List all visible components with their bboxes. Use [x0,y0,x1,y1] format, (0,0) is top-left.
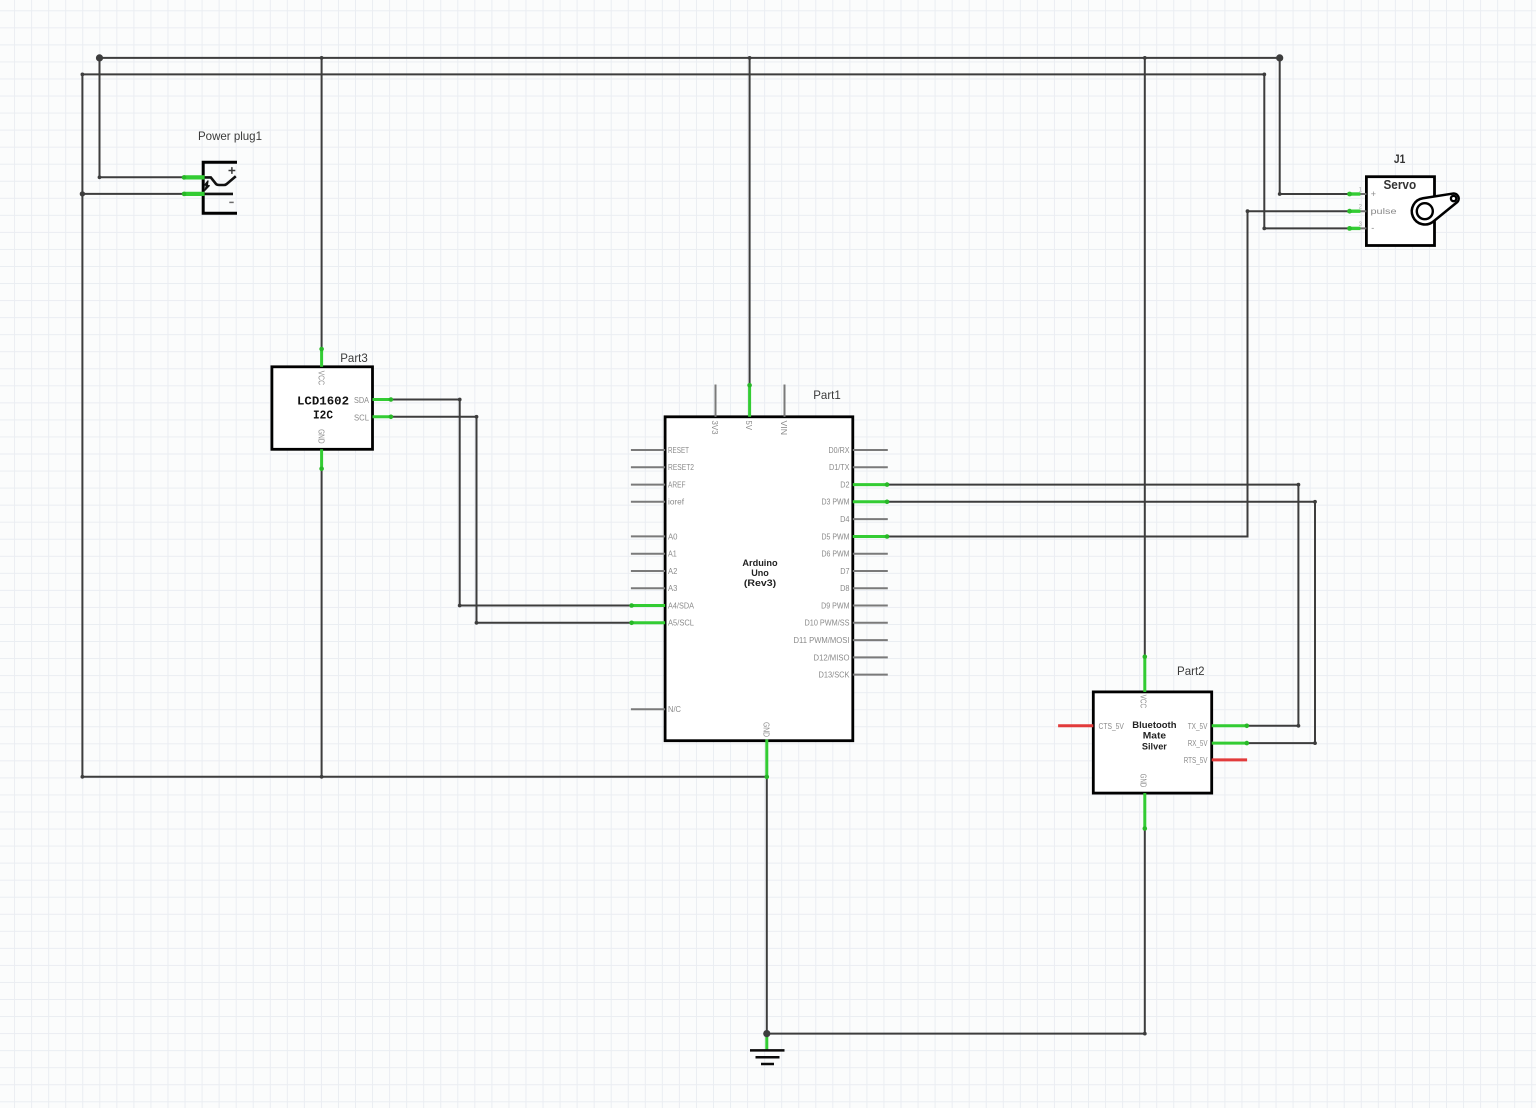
node servo + corner [1278,192,1282,196]
pin LCD GND (green) [320,449,323,469]
servo J1 [1359,152,1459,245]
node pin terminal [1245,724,1250,729]
node pin terminal [1245,741,1250,746]
pin Arduino D6 PWM stub [853,553,888,555]
node power plug - junction [80,191,85,196]
pin Bluetooth VCC (green) [1143,656,1146,692]
pin label GND (rotated) [1138,774,1147,788]
node pin terminal [629,621,634,626]
wire 5V to servo + [1280,58,1349,194]
pin Bluetooth RTS_5V (red, unconnected) [1212,758,1247,761]
Arduino Part1 [665,388,853,741]
node pin terminal [629,603,634,608]
node D2 wire start [886,483,889,486]
node ground junction (top dot) [763,1030,770,1037]
pin Arduino VIN stub [784,385,786,417]
svg-text:D5 PWM: D5 PWM [822,532,850,541]
node SDA corner bottom [458,604,462,608]
node pin terminal [182,175,187,180]
pin Arduino D4 stub [853,518,888,520]
pin label 5V (rotated) [744,421,753,431]
pin Arduino 5V (green) [748,385,751,417]
node 5V junction left [96,54,103,61]
svg-text:D12/MISO: D12/MISO [814,653,850,662]
node pin terminal [747,383,752,388]
svg-text:CTS_5V: CTS_5V [1099,722,1125,731]
svg-text:A2: A2 [668,567,678,576]
pin Arduino D1/TX stub [853,466,888,468]
svg-text:SCL: SCL [354,413,370,422]
svg-text:Part2: Part2 [1177,664,1205,678]
svg-text:GND: GND [317,429,326,444]
pin Arduino A0 stub [631,535,665,537]
pin Arduino D13/SCK stub [853,674,888,676]
svg-text:Servo: Servo [1383,178,1416,192]
svg-text:5V: 5V [744,421,753,431]
node pin terminal [389,415,394,420]
svg-text:Power plug1: Power plug1 [198,129,262,143]
ground symbol [750,1034,785,1064]
node GND bottom left corner [81,775,85,779]
svg-text:3V3: 3V3 [710,421,719,436]
node GND LCD branch [320,775,324,779]
svg-text:VCC: VCC [1138,695,1147,709]
wire GND ground to Bluetooth [767,830,1145,1034]
wire GND bus second horizontal [82,73,1264,75]
node pin terminal [389,397,394,402]
svg-text:RTS_5V: RTS_5V [1184,756,1208,765]
pin Arduino GND (green) [765,740,768,778]
svg-text:Bluetooth: Bluetooth [1132,720,1176,731]
node GND bus right corner [1262,73,1266,77]
svg-text:A1: A1 [668,550,677,559]
node power plug + corner [98,175,102,179]
node pin terminal [885,482,890,487]
svg-text:Part3: Part3 [340,351,368,365]
wire GND bottom horizontal to Arduino GND [82,776,766,778]
node 5V Bluetooth branch [1143,56,1147,60]
wire LCD SCL to Arduino A5 [391,417,631,623]
pin Arduino A1 stub [631,553,665,555]
svg-text:D7: D7 [840,567,850,576]
node D3 wire start [886,500,889,503]
LCD Part3 [272,351,373,449]
pin Arduino D3 (green) [853,500,888,503]
svg-text:D8: D8 [840,584,850,593]
node 5V junction right [1276,54,1283,61]
pin Arduino D8 stub [853,587,888,589]
wire GND to servo - [1264,74,1348,228]
wire Arduino D5 to servo pulse [888,211,1349,536]
wire 5V to power plug + [100,58,185,177]
svg-text:D0/RX: D0/RX [829,446,851,455]
wire GND to power plug - [82,193,184,195]
node pin terminal [885,500,890,505]
svg-text:D6 PWM: D6 PWM [822,550,850,559]
svg-text:SDA: SDA [354,396,370,405]
svg-text:A5/SCL: A5/SCL [668,619,695,628]
svg-text:(Rev3): (Rev3) [744,578,776,589]
node pin terminal [1143,826,1148,831]
svg-text:A0: A0 [668,532,678,541]
svg-text:D11 PWM/MOSI: D11 PWM/MOSI [794,636,850,645]
wire 5V to LCD VCC [321,58,323,349]
pin Arduino D9 PWM stub [853,605,888,607]
wire LCD GND down [321,469,323,777]
pin Arduino D0/RX stub [853,449,888,451]
pin LCD SDA (green) [373,398,392,401]
pin Bluetooth CTS_5V (red, unconnected) [1058,724,1093,727]
pin label VIN (rotated) [779,421,788,436]
node D5 wire start [886,535,889,538]
pin Arduino N/C stub [631,708,665,710]
node pin terminal [182,192,187,197]
svg-text:D4: D4 [840,515,850,524]
pin Arduino D12/MISO stub [853,656,888,658]
pin label GND (rotated) [762,722,771,737]
node GND Bluetooth corner [1143,1032,1147,1036]
node pin terminal [319,467,324,472]
svg-text:RX_5V: RX_5V [1188,739,1208,748]
svg-text:D9 PWM: D9 PWM [821,601,850,610]
svg-text:Mate: Mate [1143,731,1166,742]
pin Arduino RESET stub [631,449,665,451]
pin Bluetooth RX_5V (green) [1212,742,1248,745]
svg-text:LCD1602: LCD1602 [297,396,349,409]
node SCL corner bottom [475,621,479,625]
svg-text:N/C: N/C [668,705,681,714]
wire GND Arduino to ground symbol [766,779,768,1034]
pin LCD VCC (green) [320,348,323,367]
pin servo pulse stub [1348,210,1366,212]
node SDA corner top [458,398,462,402]
wire GND left vertical [81,74,83,776]
power plug PWR1 [198,129,262,213]
svg-text:GND: GND [1138,774,1147,788]
pin servo - stub [1348,227,1366,229]
svg-text:pulse: pulse [1371,207,1398,216]
wire 5V to Arduino 5V [749,58,751,385]
pin Arduino RESET2 stub [631,466,665,468]
svg-text:RESET2: RESET2 [668,463,694,472]
pin Arduino D10 PWM/SS stub [853,622,888,624]
pin Arduino D5 (green) [853,535,888,538]
node pin terminal [1143,654,1148,659]
svg-text:AREF: AREF [668,481,686,490]
node RX corner [1313,741,1317,745]
pin Bluetooth GND (green) [1143,793,1146,829]
svg-text:J1: J1 [1394,152,1406,166]
wire Arduino D3 to Bluetooth RX [888,502,1315,743]
svg-text:A4/SDA: A4/SDA [668,601,695,610]
svg-text:GND: GND [762,722,771,737]
svg-text:D3 PWM: D3 PWM [822,498,850,507]
node GND bus left corner [81,73,85,77]
svg-text:TX_5V: TX_5V [1188,722,1208,731]
node TX corner [1297,724,1301,728]
svg-text:VIN: VIN [779,421,788,436]
svg-text:ioref: ioref [668,498,685,507]
Bluetooth Mate Silver Part2 [1093,664,1211,793]
wire 5V to Bluetooth VCC [1144,58,1146,657]
pin Arduino D7 stub [853,570,888,572]
wire Arduino D2 to Bluetooth TX [888,485,1299,726]
svg-text:VCC: VCC [317,371,326,386]
svg-text:D1/TX: D1/TX [829,463,850,472]
pin label VCC (rotated) [1138,695,1147,709]
node pin terminal [765,775,770,780]
pin LCD SCL (green) [373,415,392,418]
pin servo + stub [1348,193,1366,195]
node SCL corner top [475,415,479,419]
svg-text:D2: D2 [840,481,850,490]
pin Arduino D2 (green) [853,483,888,486]
svg-text:+: + [1371,189,1376,199]
svg-text:D10 PWM/SS: D10 PWM/SS [805,619,850,628]
svg-text:A3: A3 [668,584,678,593]
node D2 corner [1297,483,1301,487]
node pin terminal [885,534,890,539]
svg-text:Silver: Silver [1142,742,1167,753]
node 5V LCD branch [320,56,324,60]
pin Bluetooth TX_5V (green) [1212,724,1248,727]
pin Arduino A2 stub [631,570,665,572]
pin label 3V3 (rotated) [710,421,719,436]
servo horn icon [1412,193,1459,224]
node servo - corner [1262,227,1266,231]
pin power plug + (green) [184,175,205,179]
wire 5V bus top horizontal [100,57,1280,59]
pin label VCC (rotated) [317,371,326,386]
node 5V Arduino branch [748,56,752,60]
wire LCD SDA to Arduino A4 [391,400,631,606]
pin power plug - (green) [184,192,205,196]
node servo pulse corner [1246,209,1250,213]
pin label GND (rotated) [317,429,326,444]
pin Arduino 3V3 stub [715,385,717,417]
svg-text:-: - [1371,223,1374,233]
pin Arduino D11 PWM/MOSI stub [853,639,888,641]
node D3 corner [1313,500,1317,504]
svg-text:I2C: I2C [313,410,333,423]
svg-text:D13/SCK: D13/SCK [819,671,851,680]
pin Arduino AREF stub [631,484,665,486]
svg-text:RESET: RESET [668,446,689,455]
pin Arduino A5/SCL (green) [631,621,665,624]
pin Arduino A3 stub [631,587,665,589]
pin Arduino ioref stub [631,501,665,503]
svg-text:Part1: Part1 [813,388,841,402]
pin Arduino A4/SDA (green) [631,604,665,607]
node pin terminal [319,347,324,352]
